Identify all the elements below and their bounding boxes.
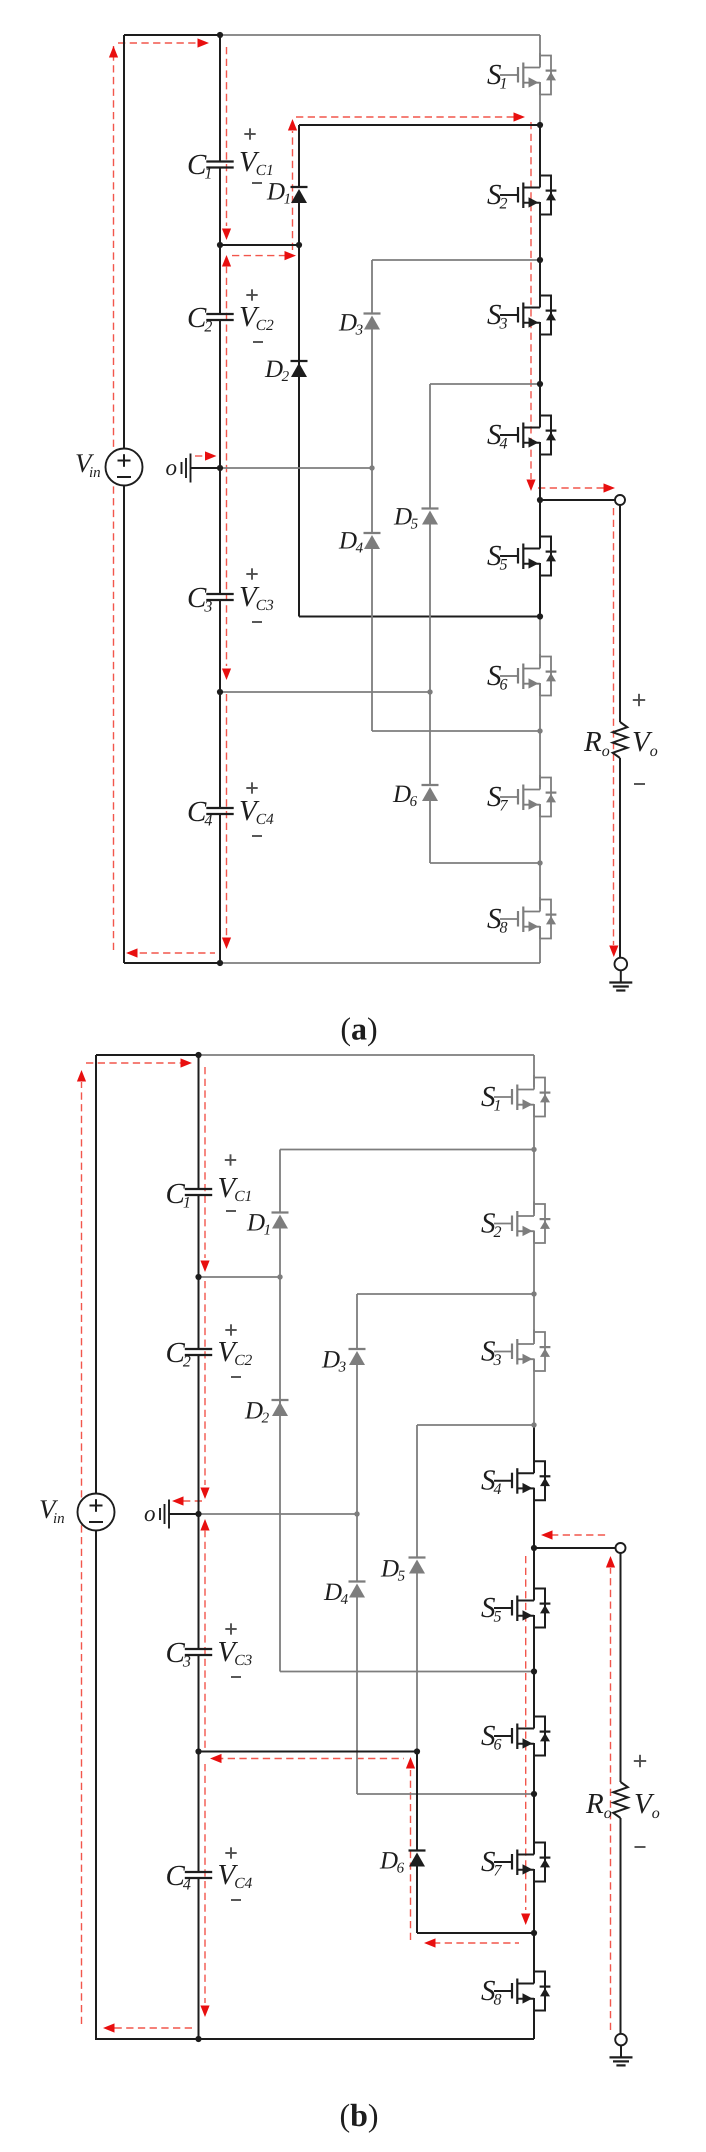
wire: S3 to node (a) <box>539 322 541 384</box>
wire: C3/C4 node row to D5/D6 column (a) <box>220 691 430 693</box>
output terminal (b) <box>616 1543 626 1553</box>
red arrow up D6 (b) <box>406 1757 415 1769</box>
red path: from terminal to node (b) <box>551 1534 607 1536</box>
wire: C1 to C2 (b) <box>198 1195 200 1349</box>
wire: bottom rail to S8 (a) <box>220 962 540 964</box>
red arrow left bottom (b) <box>103 2023 115 2032</box>
red path: to output terminal (a) <box>538 487 604 489</box>
wire: junction down to D6 (a) <box>429 692 431 785</box>
node: C1/C2 (a) <box>217 242 223 248</box>
wire: D3 anode to o-row junction (a) <box>371 330 373 469</box>
wire: node to S7 (b) <box>533 1794 535 1852</box>
red arrow into node o (a) <box>205 451 217 460</box>
red arrow right top (b) <box>181 1058 193 1067</box>
wire: D2 column to S5/S6 node (b) <box>280 1671 534 1673</box>
wire: bottom rail to cap column (a) <box>124 962 220 964</box>
red path: left rail up (a) <box>113 46 115 950</box>
red arrow up from C2 (a) <box>222 255 231 267</box>
red arrow above C3/C4 node (a) <box>222 669 231 681</box>
red arrow up into node o (b) <box>200 1519 209 1531</box>
red path: C3 branch (b) <box>204 1530 206 1748</box>
ground (b) <box>610 2045 633 2065</box>
wire: Vin+ top rail to cap column (a) <box>124 34 220 36</box>
wire: S3 to node (b) <box>533 1359 535 1426</box>
output +/- (b) <box>634 1760 646 1762</box>
red path: bottom toward left (a) <box>128 952 215 954</box>
red arrow left on C3/C4 row (b) <box>210 1754 222 1763</box>
wire: S6 to node (b) <box>533 1743 535 1794</box>
red arrow right top row (a) <box>514 112 526 121</box>
node: S1/S2 (a) <box>537 122 543 128</box>
red path: down through C4 (a) <box>226 694 228 936</box>
red arrow into C1/C2 node (a) <box>222 229 231 241</box>
node: S7/S8 (b) <box>531 1930 537 1936</box>
capacitor C2 (b) <box>185 1349 212 1355</box>
wire: node to S2 (a) <box>539 125 541 185</box>
wire: S4 to output node (a) <box>539 442 541 500</box>
wire: bottom rail to S8 (b) <box>199 2038 535 2040</box>
svg-text:o: o <box>144 1501 156 1526</box>
red arrow down to S7/S8 node (b) <box>521 1914 530 1926</box>
red path: o entry (a) <box>195 455 206 457</box>
diode D5 (b) <box>409 1558 426 1574</box>
labels C3 / VC3 (b) <box>166 1623 253 1677</box>
red arrow above node o (b) <box>200 1488 209 1500</box>
wire: C4 to bottom (a) <box>219 814 221 963</box>
red arrow down at load ground (a) <box>609 946 618 958</box>
capacitor C1 (a) <box>206 162 233 168</box>
red path: top rail right (b) <box>86 1062 181 1064</box>
wire: S3/S4 node row to D5 column (a) <box>430 383 540 385</box>
labels C2 / VC2 (b) <box>166 1324 253 1377</box>
wire: S2 to node (b) <box>533 1231 535 1295</box>
red path: down through C4 (b) <box>204 1764 206 2003</box>
node: S1/S2 (b) <box>531 1147 536 1152</box>
wire: node down to D2 (b) <box>279 1277 281 1416</box>
red path: up the load (b) <box>610 1568 612 2030</box>
ground terminal circle (a) <box>615 958 628 971</box>
svg-text:(a): (a) <box>340 1011 377 1047</box>
switch S7 (a) <box>500 775 556 817</box>
node o reference (a) <box>166 454 221 483</box>
diode D6 (a) <box>422 785 439 801</box>
red path: up through D1 (a) <box>292 131 294 250</box>
wire: Vin+ top rail to cap column (b) <box>96 1054 199 1056</box>
node: top rail / C1 (b) <box>195 1052 201 1058</box>
node: S4/S5 output (b) <box>531 1545 537 1551</box>
red arrow up left rail (a) <box>109 46 118 58</box>
wire: output node to S5 (b) <box>533 1548 535 1598</box>
labels C4 / VC4 (b) <box>166 1847 253 1900</box>
wire: output node to terminal (a) <box>540 499 615 501</box>
wire: D4 anode down to corner (b) <box>356 1598 358 1795</box>
labels C1 / VC1 (b) <box>166 1154 253 1211</box>
wire: down to D5 cathode (b) <box>416 1425 418 1558</box>
node: D5/D6 junction (b) <box>414 1748 420 1754</box>
diode D4 (b) <box>349 1582 366 1598</box>
red path: row toward caps (b) <box>216 1758 404 1760</box>
wire: S1 source to node (b) <box>533 1104 535 1150</box>
diode D1 (b) <box>272 1213 289 1229</box>
wire: node to S6 (b) <box>533 1672 535 1727</box>
red arrow left bottom (a) <box>126 948 138 957</box>
labels C4 / VC4 (a) <box>187 782 274 836</box>
voltage source Vin (b) <box>39 1494 115 1531</box>
red path: down through S5 S6 S7 (b) <box>525 1556 527 1910</box>
wire: C1/C2 node to D1 anode column (b) <box>199 1276 281 1278</box>
red arrow right output (a) <box>604 483 616 492</box>
diode D3 (a) <box>364 314 381 330</box>
switch S5 (a) <box>500 534 556 576</box>
node: S3/S4 (b) <box>531 1422 536 1427</box>
wire: node up to D1 (a) <box>298 203 300 245</box>
svg-text:o: o <box>166 455 178 480</box>
output +/- (a) <box>633 699 645 701</box>
wire: D4 corner to S6/S7 node (a) <box>372 730 540 732</box>
wire: node to S7 (a) <box>539 731 541 787</box>
node: S4/S5 output (a) <box>537 497 543 503</box>
capacitor C3 (a) <box>206 594 233 600</box>
wire: node to S3 (a) <box>539 260 541 305</box>
wire: down to D5 cathode (a) <box>429 384 431 509</box>
wire: C2 to node o (b) <box>198 1355 200 1514</box>
wire: left rail lower (b) <box>95 1531 97 2041</box>
node: bottom rail (a) <box>217 960 223 966</box>
wire: junction down to D4 (a) <box>371 468 373 533</box>
wire: C2 to node o (a) <box>219 320 221 468</box>
red path: top row to S column (a) <box>296 116 514 118</box>
svg-text:(b): (b) <box>339 2097 378 2133</box>
node: S6/S7 (b) <box>531 1791 537 1797</box>
switch S1 (a) <box>500 53 556 95</box>
node: D1/D2 junction (b) <box>277 1274 282 1279</box>
red arrow above C1/C2 node (b) <box>200 1261 209 1273</box>
red arrow up left rail (b) <box>77 1070 86 1082</box>
wire: D1 cathode up to corner (b) <box>279 1150 281 1213</box>
node: C1/C2 (b) <box>195 1274 201 1280</box>
wire: Ro to ground terminal (a) <box>619 758 621 958</box>
wire: D2 column down (b) <box>279 1400 281 1672</box>
wire: node to S4 (b) <box>533 1425 535 1471</box>
node: bottom rail (b) <box>195 2036 201 2042</box>
red arrow above bottom (b) <box>200 2006 209 2018</box>
red arrow out at node o (b) <box>172 1496 184 1505</box>
wire: S1 source to node (a) <box>539 82 541 125</box>
red path: left rail up (b) <box>81 1082 83 2024</box>
diode D4 (a) <box>364 533 381 549</box>
wire: node to C4 (b) <box>198 1752 200 1873</box>
node: D5/D6 on C3/C4 row (a) <box>427 689 432 694</box>
wire: down to D3 cathode (a) <box>371 260 373 314</box>
wire: C3 to node (b) <box>198 1655 200 1752</box>
wire: S2/S3 node row to D3 (b) <box>357 1293 534 1295</box>
node: S6/S7 (a) <box>537 728 542 733</box>
wire: junction down to D6 (b) <box>416 1752 418 1851</box>
node: o / C2 C3 (b) <box>195 1511 201 1517</box>
wire: up to S8 source (a) <box>539 926 541 963</box>
node: top rail / C1 (a) <box>217 32 223 38</box>
red arrow left at output (b) <box>541 1530 553 1539</box>
diode D6 (b) <box>409 1851 426 1867</box>
wire: node o row to D3/D4 column (b) <box>199 1513 358 1515</box>
ground (a) <box>609 971 632 991</box>
switch S8 (a) <box>500 897 556 939</box>
diode D2 (b) <box>272 1400 289 1416</box>
wire: S6 to node (a) <box>539 683 541 731</box>
wire: S5 to node (a) <box>539 563 541 617</box>
wire: C4 to bottom (b) <box>198 1878 200 2039</box>
wire: S5 to node (b) <box>533 1615 535 1672</box>
wire: S1/S2 node row (a) <box>299 124 540 126</box>
wire: S3/S4 node row to D5 column (b) <box>417 1424 534 1426</box>
wire: node to S3 (b) <box>533 1294 535 1342</box>
red arrow above bottom node (a) <box>222 938 231 950</box>
diode D5 (a) <box>422 509 439 525</box>
switch S8 (b) <box>494 1969 550 2011</box>
wire: D6 anode down to corner (a) <box>429 801 431 863</box>
wire: C1/C2 node to D1 anode column (a) <box>220 244 299 246</box>
switch S6 (b) <box>494 1714 550 1756</box>
red path: top rail right (a) <box>118 42 198 44</box>
red arrow up at load top (b) <box>606 1556 615 1568</box>
wire: D6 corner to S7/S8 node (b) <box>417 1932 534 1934</box>
wire: D5 anode to junction (b) <box>416 1574 418 1752</box>
wire: C3/C4 node row to D6 (b) <box>199 1751 418 1753</box>
red path: up through D6 (b) <box>410 1770 412 1940</box>
switch S4 (b) <box>494 1459 550 1501</box>
wire: S2/S3 node row to D3 (a) <box>372 259 540 261</box>
wire: node to S6 (a) <box>539 617 541 667</box>
red arrow right to D1 (a) <box>285 251 297 260</box>
capacitor C4 (a) <box>206 808 233 814</box>
capacitor C3 (b) <box>185 1649 212 1655</box>
wire: top rail to S1 drain (b) <box>199 1054 535 1056</box>
resistor Ro (b) <box>613 1782 628 1818</box>
wire: node o to C3 (b) <box>198 1514 200 1649</box>
wire: node up to D1 (b) <box>279 1229 281 1278</box>
wire: D1 cathode up to corner (a) <box>298 125 300 187</box>
wire: output node to terminal (b) <box>534 1547 616 1549</box>
capacitor C2 (a) <box>206 314 233 320</box>
diode D3 (b) <box>349 1349 366 1365</box>
wire: C3 to node (a) <box>219 600 221 692</box>
wire: cap column above C1 (a) <box>219 35 221 162</box>
node: C3/C4 (a) <box>217 689 223 695</box>
wire: D4 anode down to corner (a) <box>371 549 373 731</box>
node: S2/S3 (b) <box>531 1291 536 1296</box>
wire: S7 to node (b) <box>533 1869 535 1933</box>
switch S2 (b) <box>494 1202 550 1244</box>
wire: node to S2 (b) <box>533 1150 535 1214</box>
switch S1 (b) <box>494 1075 550 1117</box>
switch S3 (b) <box>494 1330 550 1372</box>
red path: down through C1 (b) <box>204 1067 206 1258</box>
wire: left rail upper (b) <box>95 1055 97 1494</box>
node: S2/S3 (a) <box>537 257 543 263</box>
wire: terminal down to Ro (b) <box>620 1553 622 1782</box>
wire: down to D3 cathode (b) <box>356 1294 358 1349</box>
wire: output node to S5 (a) <box>539 500 541 546</box>
wire: D2 column to S5/S6 node (a) <box>299 616 540 618</box>
red arrow left on S7/S8 row (b) <box>424 1938 436 1947</box>
wire: top rail to S1 drain (a) <box>220 34 540 36</box>
switch S6 (a) <box>500 654 556 696</box>
resistor Ro (a) <box>613 722 628 758</box>
wire: cap column above C1 (b) <box>198 1055 200 1189</box>
red path: bottom toward left (b) <box>112 2027 192 2029</box>
wire: bottom rail to cap column (b) <box>96 2038 199 2040</box>
wire: S7 to node (a) <box>539 804 541 863</box>
switch S4 (a) <box>500 413 556 455</box>
red arrow right top (a) <box>198 38 210 47</box>
wire: C1 to C2 (a) <box>219 168 221 315</box>
red path: down through S2 S3 S4 (a) <box>530 122 532 479</box>
wire: down to S1 (a) <box>539 35 541 65</box>
wire: left rail lower (a) <box>123 486 125 964</box>
wire: node to S8 (a) <box>539 863 541 909</box>
red path: node toward D1 column (a) <box>232 255 285 257</box>
red path: o exit left (b) <box>183 1500 205 1502</box>
wire: node o row to D3/D4 column (a) <box>220 467 372 469</box>
labels C3 / VC3 (a) <box>187 568 274 622</box>
wire: up to S8 source (b) <box>533 1998 535 2039</box>
output terminal (a) <box>615 495 625 505</box>
wire: S4 source to output node (b) <box>533 1488 535 1548</box>
switch S3 (a) <box>500 293 556 335</box>
wire: D4 corner to S6/S7 node (b) <box>357 1793 534 1795</box>
red path: down through C2 (b) <box>204 1281 206 1485</box>
node: S7/S8 (a) <box>537 860 542 865</box>
node: S5/S6 (b) <box>531 1668 537 1674</box>
wire: S2 to node (a) <box>539 202 541 260</box>
red path: down through C2 C3 (a) <box>226 266 228 666</box>
wire: Ro to ground terminal (b) <box>620 1818 622 2034</box>
node: S5/S6 (a) <box>537 613 543 619</box>
capacitor C4 (b) <box>185 1872 212 1878</box>
wire: D6 corner to S7/S8 node (a) <box>430 862 540 864</box>
wire: D6 anode down to corner (b) <box>416 1867 418 1934</box>
wire: D5 anode to junction (a) <box>429 525 431 693</box>
switch S2 (a) <box>500 173 556 215</box>
node: C3/C4 (b) <box>195 1748 201 1754</box>
red path: node row toward D6 (b) <box>433 1942 519 1944</box>
wire: left rail upper (a) <box>123 35 125 449</box>
ground terminal circle (b) <box>615 2034 627 2046</box>
capacitor C1 (b) <box>185 1189 212 1195</box>
wire: S1/S2 node row (b) <box>280 1149 534 1151</box>
diode D1 (a) <box>291 187 308 203</box>
wire: junction down to D4 (b) <box>356 1514 358 1582</box>
node: D3/D4 on o row (b) <box>354 1511 359 1516</box>
wire: D3 anode to o-row junction (b) <box>356 1365 358 1514</box>
wire: node to C4 (a) <box>219 692 221 808</box>
labels C1 / VC1 (a) <box>187 128 274 183</box>
node: o / C2 C3 (a) <box>217 465 223 471</box>
wire: D2 cathode... anode column down (a) <box>298 361 300 617</box>
wire: node to S8 (b) <box>533 1933 535 1981</box>
labels C2 / VC2 (a) <box>187 289 274 342</box>
node: S3/S4 (a) <box>537 381 543 387</box>
node o reference (b) <box>144 1500 199 1529</box>
wire: node o to C3 (a) <box>219 468 221 594</box>
red arrow up D1 (a) <box>288 119 297 131</box>
node: D3/D4 on o row (a) <box>369 465 374 470</box>
switch S5 (b) <box>494 1586 550 1628</box>
wire: node down to D2 (a) <box>298 245 300 377</box>
red path: down through C1 (a) <box>226 47 228 226</box>
diode D2 (a) <box>291 361 308 377</box>
red arrow down at S4 (a) <box>526 480 535 492</box>
voltage source Vin (a) <box>75 448 143 486</box>
red path: down the load (a) <box>613 508 615 945</box>
wire: terminal down to Ro (a) <box>619 505 621 722</box>
node: D1/D2 junction (a) <box>296 242 302 248</box>
wire: node to S4 (a) <box>539 384 541 425</box>
switch S7 (b) <box>494 1840 550 1882</box>
wire: down to S1 (b) <box>533 1055 535 1087</box>
